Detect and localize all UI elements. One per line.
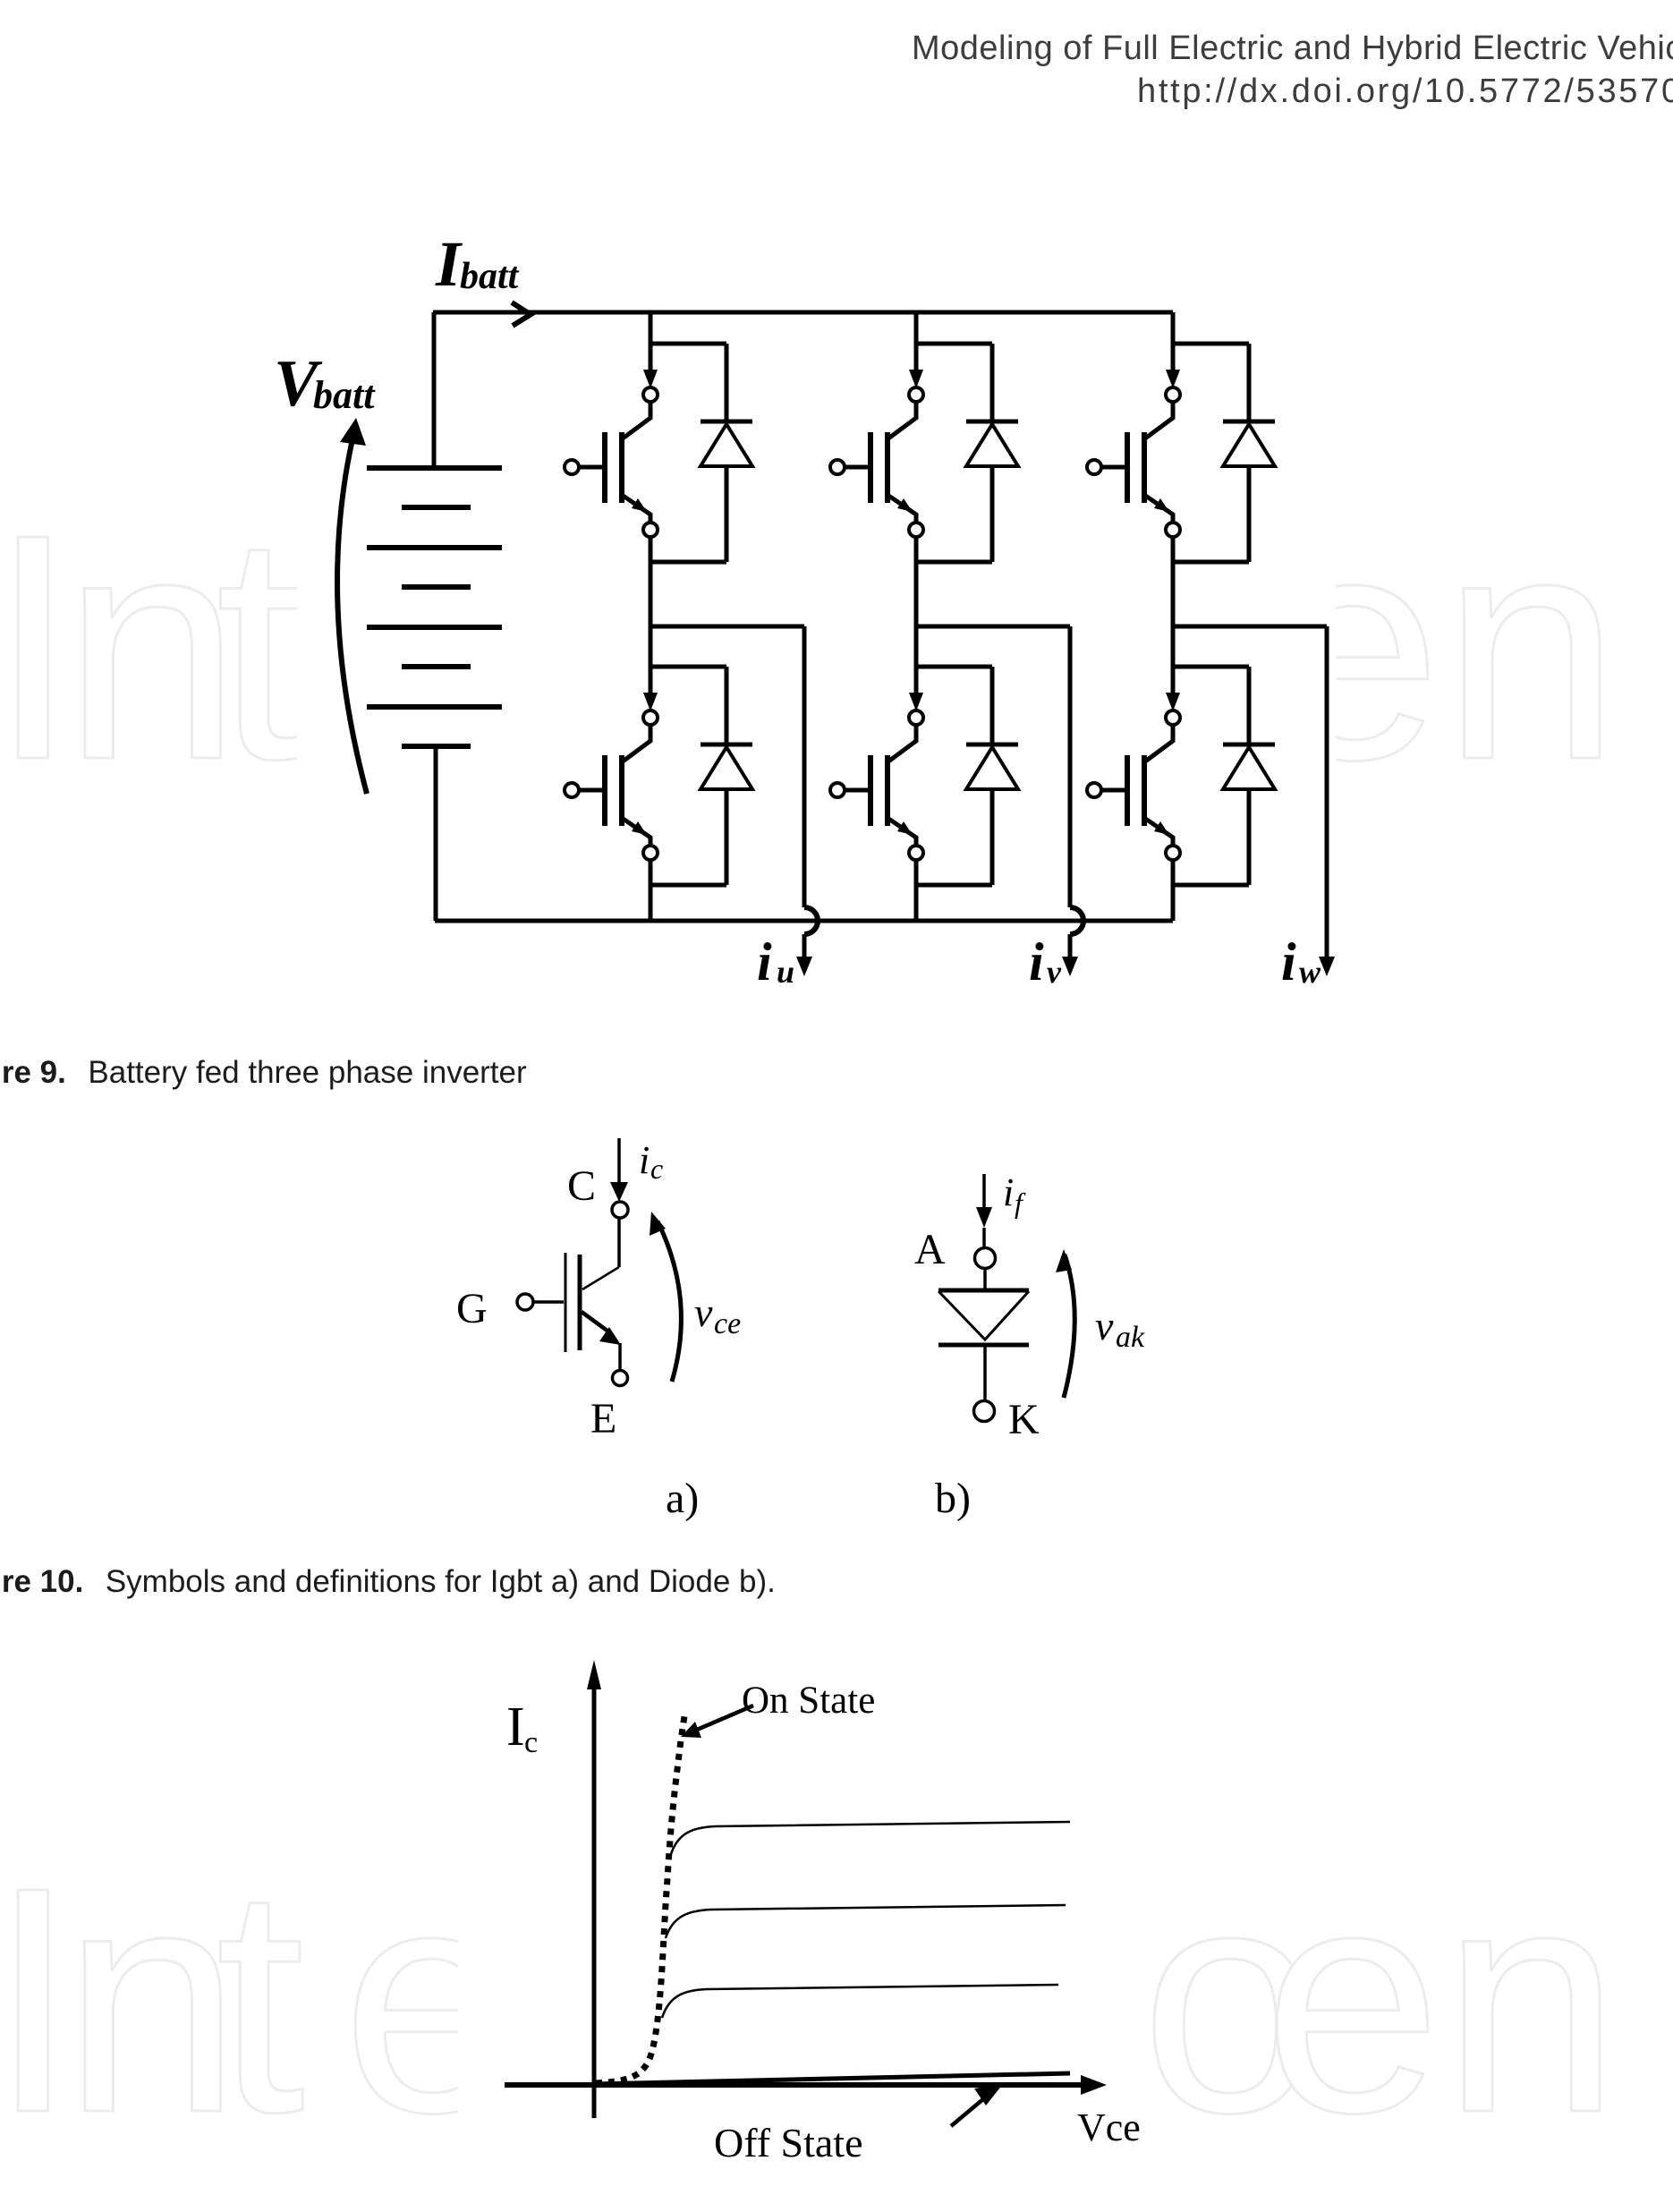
svg-text:E: E (590, 1395, 616, 1442)
svg-text:K: K (1008, 1396, 1040, 1443)
svg-text:b): b) (935, 1475, 971, 1522)
svg-text:i: i (639, 1138, 650, 1182)
svg-text:i: i (1029, 932, 1044, 991)
svg-text:batt: batt (313, 373, 376, 417)
svg-text:u: u (777, 954, 794, 990)
svg-text:i: i (1281, 932, 1296, 991)
svg-text:ak: ak (1116, 1321, 1145, 1354)
svg-text:v: v (694, 1289, 713, 1335)
svg-text:c: c (650, 1153, 663, 1185)
svg-text:ce: ce (714, 1307, 741, 1340)
svg-text:i: i (757, 932, 772, 991)
svg-text:C: C (567, 1162, 596, 1210)
svg-text:c: c (524, 1726, 538, 1759)
svg-text:i: i (1003, 1170, 1014, 1214)
svg-text:Vce: Vce (1077, 2106, 1141, 2149)
svg-text:a): a) (666, 1475, 699, 1522)
svg-text:On State: On State (742, 1680, 875, 1722)
svg-text:G: G (456, 1285, 488, 1332)
svg-text:v: v (1095, 1303, 1114, 1348)
svg-text:f: f (1015, 1187, 1026, 1219)
svg-text:A: A (914, 1226, 946, 1273)
svg-text:I: I (506, 1697, 525, 1757)
svg-text:Off State: Off State (714, 2120, 863, 2165)
svg-text:batt: batt (460, 256, 520, 297)
svg-text:v: v (1047, 954, 1062, 990)
svg-text:w: w (1299, 954, 1321, 990)
